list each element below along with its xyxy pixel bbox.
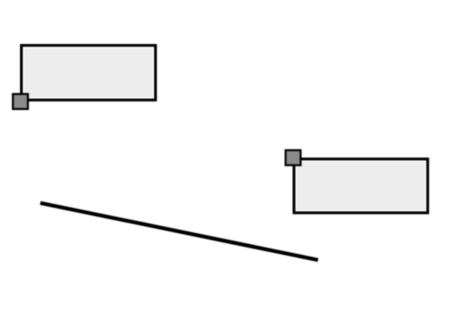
box B2 border <box>294 159 428 213</box>
handle H2 (top-left of B2) <box>286 150 301 165</box>
box B1 border <box>21 45 155 100</box>
box B2 fill <box>297 162 425 210</box>
box B1 fill <box>24 48 152 97</box>
handle H1 (bottom-left of B1) <box>13 94 28 109</box>
line L1 (diagonal connector) <box>40 203 318 260</box>
